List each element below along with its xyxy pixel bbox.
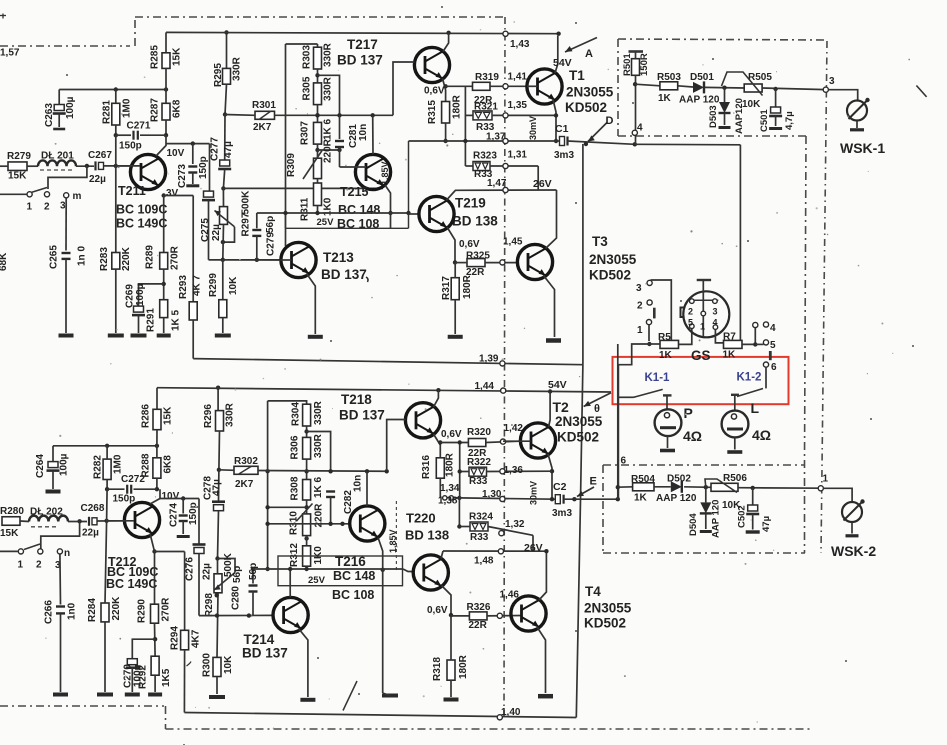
svg-text:1: 1 — [823, 474, 829, 485]
svg-text:KD502: KD502 — [557, 430, 599, 445]
svg-text:220K: 220K — [121, 246, 132, 271]
svg-text:500K: 500K — [223, 552, 234, 577]
svg-text:10K: 10K — [223, 655, 234, 674]
svg-text:R282: R282 — [93, 455, 104, 479]
svg-text:54V: 54V — [553, 57, 572, 69]
svg-text:150p: 150p — [188, 502, 199, 525]
svg-text:R285: R285 — [150, 45, 161, 69]
svg-text:m: m — [73, 191, 82, 202]
svg-text:1K: 1K — [659, 350, 673, 361]
svg-text:T2: T2 — [553, 399, 570, 415]
svg-text:T3: T3 — [592, 234, 608, 249]
svg-text:BD 138: BD 138 — [405, 528, 449, 543]
svg-text:C280: C280 — [231, 586, 242, 610]
svg-text:R319: R319 — [475, 72, 499, 83]
svg-text:2K7: 2K7 — [253, 122, 272, 133]
svg-text:C269: C269 — [125, 284, 136, 308]
svg-text:R296: R296 — [203, 404, 214, 428]
svg-text:10n: 10n — [358, 124, 369, 141]
svg-text:2: 2 — [44, 202, 50, 213]
svg-text:3V: 3V — [166, 188, 179, 199]
svg-text:220R: 220R — [323, 138, 334, 163]
svg-text:15K: 15K — [0, 528, 19, 539]
svg-text:26V: 26V — [524, 542, 543, 554]
svg-text:10K: 10K — [742, 99, 761, 110]
svg-text:1K5: 1K5 — [161, 668, 172, 687]
svg-text:0,6V: 0,6V — [427, 605, 448, 616]
svg-text:R294: R294 — [170, 626, 181, 650]
svg-text:330R: 330R — [225, 402, 236, 427]
svg-text:47µ: 47µ — [761, 516, 772, 532]
svg-text:C267: C267 — [88, 150, 112, 161]
svg-text:330R: 330R — [323, 76, 334, 101]
svg-text:R290: R290 — [137, 599, 148, 623]
svg-text:BC 148: BC 148 — [338, 203, 380, 217]
svg-text:1: 1 — [637, 325, 643, 336]
svg-text:1,41: 1,41 — [508, 72, 528, 83]
svg-text:R316: R316 — [421, 455, 432, 479]
svg-text:26V: 26V — [533, 178, 552, 190]
svg-text:R284: R284 — [87, 598, 98, 622]
svg-text:T220: T220 — [406, 511, 436, 526]
svg-text:R318: R318 — [432, 657, 443, 681]
svg-text:R322: R322 — [467, 457, 491, 468]
svg-text:KD502: KD502 — [589, 268, 631, 283]
svg-text:C263: C263 — [44, 103, 55, 127]
svg-text:3m3: 3m3 — [554, 150, 574, 161]
svg-text:10K: 10K — [228, 276, 239, 295]
svg-text:1,34: 1,34 — [440, 483, 460, 494]
svg-text:1,32: 1,32 — [505, 519, 525, 530]
svg-text:22µ: 22µ — [89, 174, 106, 185]
svg-text:1,45: 1,45 — [503, 237, 523, 248]
svg-text:15K: 15K — [172, 47, 183, 66]
svg-text:2N3055: 2N3055 — [555, 414, 603, 429]
svg-text:WSK-2: WSK-2 — [831, 543, 876, 559]
svg-text:C2: C2 — [553, 481, 567, 493]
svg-text:n: n — [64, 548, 70, 559]
svg-text:R310: R310 — [289, 511, 300, 535]
svg-text:R289: R289 — [145, 245, 156, 269]
svg-text:150p: 150p — [119, 141, 142, 152]
svg-text:WSK-1: WSK-1 — [840, 140, 885, 156]
svg-text:BD 137: BD 137 — [321, 267, 367, 282]
svg-text:R305: R305 — [302, 76, 313, 100]
svg-text:C275: C275 — [200, 218, 211, 242]
svg-text:1K0: 1K0 — [313, 546, 324, 565]
svg-text:R279: R279 — [7, 151, 31, 162]
svg-text:0,6V: 0,6V — [441, 429, 462, 440]
svg-text:T219: T219 — [455, 196, 486, 211]
svg-text:54V: 54V — [548, 379, 567, 391]
svg-text:L: L — [751, 400, 760, 416]
svg-text:25V: 25V — [317, 217, 335, 228]
svg-text:GS: GS — [691, 348, 711, 363]
svg-text:1,85V: 1,85V — [380, 161, 390, 185]
svg-text:150p: 150p — [113, 494, 136, 505]
svg-text:K1-2: K1-2 — [737, 372, 762, 384]
svg-text:4: 4 — [770, 323, 776, 334]
svg-text:180R: 180R — [445, 452, 456, 477]
svg-text:R302: R302 — [234, 456, 258, 467]
svg-text:6: 6 — [621, 456, 627, 467]
svg-text:5: 5 — [770, 340, 776, 351]
svg-text:R309: R309 — [286, 153, 297, 177]
svg-text:2: 2 — [36, 560, 42, 571]
svg-text:22R: 22R — [469, 620, 488, 631]
svg-text:1,57: 1,57 — [0, 48, 20, 59]
svg-text:C274: C274 — [169, 503, 180, 527]
svg-text:3: 3 — [636, 283, 642, 294]
svg-text:C265: C265 — [49, 245, 60, 269]
svg-text:KD502: KD502 — [565, 100, 607, 115]
svg-text:1,36: 1,36 — [504, 465, 524, 476]
svg-text:1K: 1K — [658, 93, 672, 104]
svg-text:R315: R315 — [427, 100, 438, 124]
svg-text:C271: C271 — [127, 121, 151, 132]
svg-text:22µ: 22µ — [211, 224, 222, 241]
svg-text:C279: C279 — [266, 232, 277, 256]
svg-text:BD 137: BD 137 — [337, 53, 383, 68]
svg-text:D: D — [606, 115, 614, 127]
svg-text:R311: R311 — [300, 197, 311, 221]
svg-text:R324: R324 — [469, 512, 493, 523]
svg-text:4Ω: 4Ω — [752, 427, 771, 443]
svg-text:47µ: 47µ — [223, 141, 234, 158]
svg-text:1: 1 — [700, 322, 705, 332]
svg-text:R323: R323 — [473, 151, 497, 162]
svg-text:6K8: 6K8 — [163, 455, 174, 474]
svg-text:AAP 120: AAP 120 — [679, 95, 720, 106]
svg-text:330R: 330R — [313, 433, 324, 458]
svg-text:T4: T4 — [585, 584, 601, 599]
svg-text:6K8: 6K8 — [172, 99, 183, 118]
svg-text:R297: R297 — [241, 212, 252, 236]
svg-text:C268: C268 — [81, 503, 105, 514]
svg-text:1K: 1K — [723, 350, 737, 361]
svg-text:0,6V: 0,6V — [459, 239, 480, 250]
svg-text:1,40: 1,40 — [501, 707, 521, 718]
svg-text:C266: C266 — [44, 600, 55, 624]
svg-text:1K 5: 1K 5 — [171, 309, 182, 331]
svg-text:4K7: 4K7 — [191, 629, 202, 648]
svg-text:R33: R33 — [469, 476, 488, 487]
svg-text:2N3055: 2N3055 — [566, 85, 614, 100]
svg-text:D501: D501 — [690, 72, 714, 83]
svg-text:270R: 270R — [170, 245, 181, 270]
svg-text:R308: R308 — [290, 476, 301, 500]
svg-text:270R: 270R — [161, 597, 172, 622]
svg-text:2: 2 — [688, 307, 693, 317]
svg-text:15K: 15K — [163, 406, 174, 425]
svg-text:R283: R283 — [99, 247, 110, 271]
svg-text:6: 6 — [771, 362, 777, 373]
svg-text:T211: T211 — [118, 184, 146, 198]
svg-text:R306: R306 — [290, 435, 301, 459]
svg-text:T213: T213 — [323, 250, 354, 265]
svg-text:1,39: 1,39 — [479, 354, 499, 365]
svg-text:R292: R292 — [138, 665, 149, 689]
svg-text:P: P — [684, 405, 693, 421]
svg-text:T218: T218 — [341, 392, 372, 407]
svg-text:150R: 150R — [639, 53, 650, 76]
svg-text:C277: C277 — [210, 137, 221, 161]
svg-text:BC 109C: BC 109C — [116, 203, 167, 217]
svg-text:500K: 500K — [241, 190, 252, 215]
svg-text:4,7µ: 4,7µ — [784, 111, 795, 130]
svg-text:1,31: 1,31 — [508, 150, 528, 161]
svg-text:22µ: 22µ — [82, 528, 99, 539]
svg-text:KD502: KD502 — [584, 616, 626, 631]
svg-text:R298: R298 — [204, 593, 215, 617]
svg-text:2N3055: 2N3055 — [584, 601, 632, 616]
svg-text:BD 137: BD 137 — [242, 646, 288, 661]
svg-text:BC 149C: BC 149C — [116, 217, 167, 231]
svg-text:1,44: 1,44 — [475, 381, 495, 392]
svg-text:180R: 180R — [458, 654, 469, 679]
svg-text:1K: 1K — [634, 493, 648, 504]
svg-text:2: 2 — [637, 301, 643, 312]
svg-text:R286: R286 — [141, 404, 152, 428]
svg-text:1,48: 1,48 — [474, 556, 494, 567]
svg-text:R281: R281 — [102, 100, 113, 124]
svg-text:C501: C501 — [759, 109, 770, 132]
svg-text:R287: R287 — [150, 98, 161, 122]
svg-text:R33: R33 — [470, 532, 489, 543]
svg-text:D503: D503 — [708, 105, 719, 128]
svg-text:220K: 220K — [111, 596, 122, 621]
svg-text:30mV: 30mV — [529, 481, 539, 505]
svg-text:180R: 180R — [452, 94, 463, 119]
svg-text:1,43: 1,43 — [510, 39, 530, 50]
svg-text:0,6V: 0,6V — [424, 86, 445, 97]
svg-text:1K 6: 1K 6 — [313, 476, 324, 498]
svg-text:AAP 120: AAP 120 — [711, 500, 722, 538]
svg-text:T217: T217 — [347, 37, 378, 52]
svg-text:C272: C272 — [121, 474, 145, 485]
svg-text:AAP 120: AAP 120 — [656, 493, 697, 504]
svg-text:θ: θ — [594, 403, 600, 415]
svg-text:R312: R312 — [289, 543, 300, 567]
svg-text:2N3055: 2N3055 — [589, 252, 637, 267]
svg-text:1,47: 1,47 — [487, 178, 507, 189]
svg-text:1,38: 1,38 — [438, 496, 458, 507]
svg-text:1,30: 1,30 — [482, 489, 502, 500]
svg-text:150p: 150p — [198, 156, 209, 179]
svg-text:22µ: 22µ — [202, 563, 213, 580]
svg-text:BD 138: BD 138 — [452, 214, 498, 229]
svg-text:56p: 56p — [265, 216, 276, 233]
svg-text:C1: C1 — [555, 123, 569, 135]
svg-text:15K: 15K — [8, 171, 27, 182]
svg-text:C502: C502 — [737, 505, 748, 528]
svg-text:R307: R307 — [300, 121, 311, 145]
svg-text:3: 3 — [713, 307, 718, 317]
svg-text:47µ: 47µ — [212, 479, 223, 496]
svg-text:R291: R291 — [146, 308, 157, 332]
svg-text:1n 0: 1n 0 — [77, 246, 88, 266]
svg-text:D504: D504 — [688, 513, 699, 536]
svg-text:3m3: 3m3 — [552, 508, 572, 519]
svg-text:56p: 56p — [248, 563, 259, 580]
svg-text:2K7: 2K7 — [235, 479, 254, 490]
svg-text:R304: R304 — [291, 402, 302, 426]
svg-text:1,37: 1,37 — [486, 132, 506, 143]
svg-text:100µ: 100µ — [59, 453, 70, 476]
svg-text:10V: 10V — [167, 148, 185, 159]
svg-text:R320: R320 — [467, 427, 491, 438]
svg-text:180R: 180R — [462, 274, 473, 299]
svg-text:R299: R299 — [208, 273, 219, 297]
svg-text:R317: R317 — [441, 276, 452, 300]
svg-text:100µ: 100µ — [135, 283, 146, 306]
svg-text:1: 1 — [27, 202, 33, 213]
svg-text:R303: R303 — [302, 45, 313, 69]
svg-text:R300: R300 — [202, 653, 213, 677]
svg-text:1K 6: 1K 6 — [323, 118, 334, 140]
svg-text:D502: D502 — [667, 474, 691, 485]
svg-text:330R: 330R — [232, 56, 243, 81]
svg-text:R506: R506 — [723, 473, 747, 484]
svg-text:K1-1: K1-1 — [645, 372, 671, 384]
svg-text:3: 3 — [60, 201, 66, 212]
svg-text:1M0: 1M0 — [113, 454, 124, 474]
svg-text:3: 3 — [829, 76, 835, 87]
svg-text:10n: 10n — [353, 475, 364, 492]
svg-text:BC 149C: BC 149C — [106, 577, 157, 591]
svg-text:R293: R293 — [178, 275, 189, 299]
svg-text:A: A — [585, 48, 593, 60]
svg-text:C282: C282 — [343, 490, 354, 514]
svg-text:E: E — [590, 476, 597, 488]
svg-text:R280: R280 — [0, 506, 24, 517]
svg-text:BD 137: BD 137 — [339, 408, 385, 423]
svg-text:BC 108: BC 108 — [332, 588, 374, 602]
svg-text:5: 5 — [688, 318, 693, 328]
svg-text:C264: C264 — [35, 454, 46, 478]
svg-text:25V: 25V — [308, 575, 326, 586]
svg-text:T215: T215 — [340, 185, 369, 199]
svg-text:1,42: 1,42 — [504, 423, 524, 434]
svg-text:4Ω: 4Ω — [683, 428, 702, 444]
svg-text:68K: 68K — [0, 252, 9, 271]
svg-text:4: 4 — [637, 123, 643, 134]
svg-text:R301: R301 — [252, 100, 276, 111]
svg-text:100µ: 100µ — [65, 96, 76, 119]
svg-text:1: 1 — [18, 560, 24, 571]
svg-text:BC 148: BC 148 — [333, 569, 375, 583]
svg-text:1M0: 1M0 — [122, 98, 133, 118]
svg-text:C276: C276 — [185, 557, 196, 581]
svg-text:T1: T1 — [569, 68, 585, 83]
svg-text:330R: 330R — [313, 400, 324, 425]
svg-text:4: 4 — [713, 318, 718, 328]
svg-text:330R: 330R — [323, 42, 334, 67]
svg-text:1n0: 1n0 — [67, 602, 78, 620]
svg-text:1,35: 1,35 — [508, 100, 528, 111]
svg-text:30mV: 30mV — [528, 116, 538, 140]
svg-text:4K 7: 4K 7 — [192, 274, 203, 296]
svg-text:10V: 10V — [162, 491, 180, 502]
